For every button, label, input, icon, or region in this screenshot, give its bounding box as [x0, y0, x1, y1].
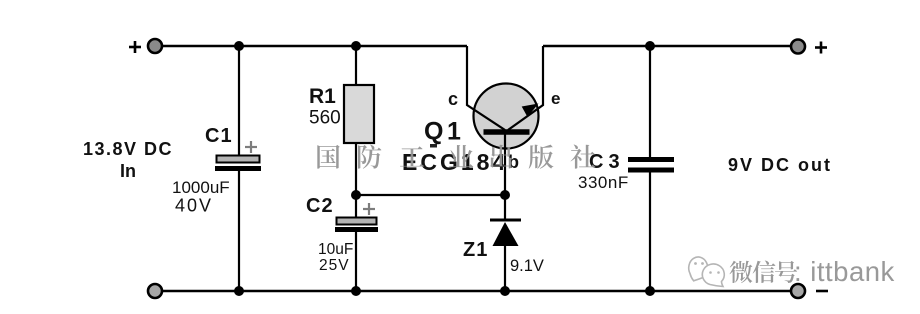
wire Z1 bottom lead: [504, 246, 506, 291]
capacitor C1 polarity plus: [245, 141, 257, 153]
svg-text:10uF: 10uF: [318, 241, 353, 258]
svg-text:e: e: [551, 89, 560, 108]
svg-text:9.1V: 9.1V: [510, 257, 544, 275]
wire base feed horizontal: [356, 194, 505, 196]
wechat id char 号: [775, 261, 797, 283]
wire R1 bottom lead: [355, 143, 357, 196]
wire C1 branch lower: [238, 170, 240, 291]
svg-text:1000uF: 1000uF: [172, 178, 230, 197]
zener Z1 anode triangle: [493, 222, 519, 246]
wire bottom rail: [155, 290, 798, 292]
capacitor C2 polarity plus: [363, 203, 375, 215]
capacitor C1 plates: [215, 156, 261, 172]
terminal output negative: [791, 284, 805, 298]
wire C3 top lead: [649, 46, 651, 158]
wire C3 bottom lead: [649, 172, 651, 291]
node junction C3 top: [645, 41, 655, 51]
svg-text:C2: C2: [306, 195, 334, 217]
svg-text:C1: C1: [205, 125, 233, 147]
node junction C3 bottom: [645, 286, 655, 296]
wechat logo icon: [689, 257, 725, 287]
capacitor C2 plates: [335, 218, 378, 233]
node junction Z1 bottom: [500, 286, 510, 296]
watermark char 国: [317, 145, 339, 169]
svg-text:: ittbank: : ittbank: [794, 256, 895, 287]
svg-text:330nF: 330nF: [578, 173, 629, 192]
transistor Q1 base bar: [484, 129, 530, 135]
node junction base/Z1: [500, 190, 510, 200]
node junction C2 bottom: [351, 286, 361, 296]
transistor Q1 emitter arrow: [522, 104, 539, 118]
watermark char 工: [400, 146, 424, 166]
wire C2 top lead: [355, 195, 357, 218]
wire emitter lead: [508, 46, 543, 130]
svg-text:40V: 40V: [175, 196, 213, 216]
svg-text:9V DC out: 9V DC out: [728, 155, 832, 175]
wire top rail right segment: [543, 45, 798, 47]
plus sign at output terminal: [815, 42, 827, 54]
wire C1 branch upper: [238, 46, 240, 156]
watermark char 社: [571, 145, 596, 169]
wire collector lead: [467, 46, 505, 130]
node junction R1/C2/base: [351, 190, 361, 200]
node junction R1 top: [351, 41, 361, 51]
node junction C1 top: [234, 41, 244, 51]
svg-text:560: 560: [309, 108, 341, 129]
resistor R1: [344, 85, 374, 143]
wechat id char 微: [730, 261, 753, 283]
wechat id char 信: [753, 261, 776, 284]
wire base vertical: [504, 132, 506, 220]
watermark char 业: [449, 145, 473, 167]
svg-text:Z1: Z1: [463, 239, 488, 261]
label dash under Q1: [430, 144, 437, 148]
wire R1 top lead: [355, 46, 357, 86]
wire C2 bottom lead: [355, 231, 357, 291]
terminal output positive: [791, 40, 805, 54]
node junction C1 bottom: [234, 286, 244, 296]
svg-text:c: c: [448, 89, 458, 109]
svg-text:25V: 25V: [319, 257, 350, 274]
wechat logo eyes: [694, 262, 720, 274]
svg-text:In: In: [120, 161, 136, 181]
capacitor C3 plates: [628, 157, 674, 173]
zener Z1 cathode bar: [490, 219, 521, 222]
svg-text:R1: R1: [309, 85, 336, 108]
transistor Q1 body: [474, 84, 539, 149]
plus sign at input terminal: [129, 41, 141, 53]
watermark char 防: [358, 145, 381, 169]
terminal input negative: [148, 284, 162, 298]
wire top rail left segment: [155, 45, 467, 47]
watermark char 出: [490, 145, 512, 169]
svg-text:Q1: Q1: [424, 118, 464, 146]
watermark char 版: [529, 145, 554, 169]
svg-text:13.8V DC: 13.8V DC: [83, 139, 173, 159]
terminal input positive: [148, 39, 162, 53]
minus sign at output terminal: [816, 290, 828, 293]
